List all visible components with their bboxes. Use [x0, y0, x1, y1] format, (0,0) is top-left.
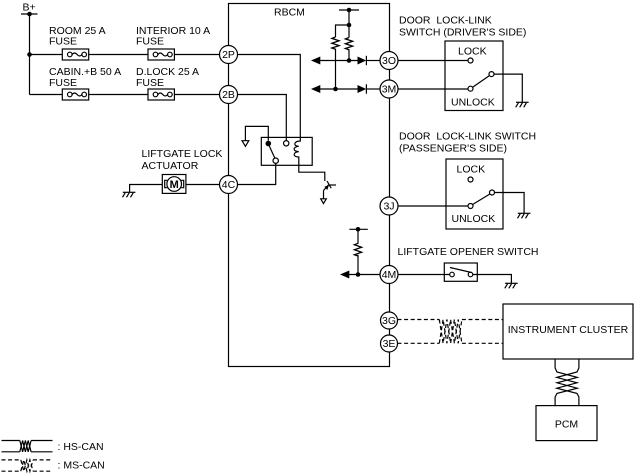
relay common contact — [266, 141, 272, 147]
wire 3M to driver unlock contact — [398, 88, 468, 90]
wire CABIN fuse to D.LOCK fuse — [89, 94, 148, 96]
svg-text:4M: 4M — [382, 269, 397, 281]
wire 3G dashed MS-CAN left — [398, 319, 440, 321]
contact opener left — [450, 272, 455, 277]
label D.LOCK 25 A FUSE — [136, 66, 199, 89]
power tick internal top — [339, 8, 359, 13]
resistor R-right — [345, 38, 352, 50]
label DOOR LOCK-LINK SWITCH (PASSENGER'S SIDE) — [399, 131, 536, 155]
svg-text:UNLOCK: UNLOCK — [451, 97, 495, 109]
pin 4C — [220, 176, 238, 194]
svg-text:LIFTGATE LOCK: LIFTGATE LOCK — [142, 148, 223, 160]
wire R-right to 3O line — [348, 49, 350, 60]
label ROOM 25 A FUSE — [49, 25, 106, 48]
contact driver lock — [468, 58, 473, 63]
relay NO contact — [273, 158, 278, 163]
svg-text:FUSE: FUSE — [136, 77, 164, 89]
legend MS-CAN symbol — [2, 460, 53, 471]
module INSTRUMENT CLUSTER box — [503, 304, 633, 359]
svg-text:2P: 2P — [222, 49, 235, 61]
contact driver common — [489, 72, 494, 77]
relay armature lever — [269, 146, 275, 158]
relay K1 box — [261, 137, 312, 165]
svg-text:4C: 4C — [222, 179, 236, 191]
svg-text:FUSE: FUSE — [49, 36, 77, 48]
wire INTERIOR fuse to pin 2P — [174, 54, 219, 56]
pin 3M — [380, 80, 398, 98]
wire diode to 3M — [366, 88, 380, 90]
svg-text:3J: 3J — [383, 201, 394, 213]
contact passenger common — [490, 190, 495, 195]
contact passenger lock (open) — [468, 177, 473, 182]
wire ROOM fuse to INTERIOR fuse — [89, 54, 148, 56]
wire motor to ground — [130, 185, 163, 193]
wire motor to pin 4C — [186, 184, 220, 186]
contact passenger unlock — [468, 204, 473, 209]
wire driver common to ground — [494, 74, 522, 102]
svg-text:PCM: PCM — [555, 419, 578, 431]
diode 3O line — [358, 56, 367, 65]
pin 3J — [380, 197, 398, 215]
lever passenger switch — [473, 194, 490, 205]
svg-text:3M: 3M — [382, 84, 397, 96]
junction row1 — [27, 52, 32, 57]
svg-text:ACTUATOR: ACTUATOR — [142, 160, 199, 172]
junction on 4M line — [356, 272, 361, 277]
arrow left 4M line — [340, 271, 349, 279]
switch box liftgate opener — [444, 263, 477, 281]
svg-text:LOCK: LOCK — [457, 164, 486, 176]
module PCM box — [536, 406, 597, 441]
svg-text:2B: 2B — [222, 89, 235, 101]
svg-text:M: M — [170, 179, 179, 191]
wire 4M to opener switch — [398, 274, 450, 276]
twisted pair MS-CAN to cluster — [439, 320, 462, 344]
svg-text:INSTRUMENT CLUSTER: INSTRUMENT CLUSTER — [508, 324, 629, 336]
fuse INTERIOR 10 A — [148, 49, 174, 60]
relay coil L1 — [294, 137, 300, 165]
arrow open down continuation left of relay — [242, 141, 249, 147]
svg-text:LOCK: LOCK — [458, 46, 487, 58]
switch box passenger — [446, 159, 503, 229]
wire 2B to relay contact — [238, 95, 286, 141]
wire 3G dashed MS-CAN right — [462, 319, 503, 321]
pin 2B — [220, 86, 238, 104]
wire 3E dashed MS-CAN right — [462, 342, 503, 344]
pin 2P — [220, 46, 238, 64]
svg-text:3E: 3E — [383, 338, 396, 350]
wire row2 corner to CABIN fuse — [30, 94, 63, 96]
wire 3E dashed MS-CAN left — [398, 342, 440, 344]
wire relay coil to transistor — [299, 165, 325, 181]
wire transistor emitter down — [323, 191, 325, 199]
fuse CABIN.+B 50 A — [62, 89, 88, 100]
svg-text:3O: 3O — [382, 55, 396, 67]
label CABIN.+B 50 A FUSE — [49, 66, 121, 89]
wire row1 to ROOM fuse — [30, 54, 63, 56]
arrow open down below transistor — [321, 199, 327, 204]
wire resistor to 4M line — [357, 255, 359, 275]
wire D.LOCK fuse to pin 2B — [174, 94, 219, 96]
arrow left 3M line — [311, 85, 320, 93]
wire power tick to resistor — [357, 229, 359, 243]
wire passenger common to ground — [495, 193, 525, 214]
svg-text:3G: 3G — [382, 315, 396, 327]
wire branch right — [348, 25, 350, 38]
wire 3M internal — [319, 88, 358, 90]
contact driver unlock — [468, 86, 473, 91]
wire R-left to 3M line — [335, 49, 337, 89]
svg-text:DOOR LOCK-LINK SWITCH: DOOR LOCK-LINK SWITCH — [399, 131, 536, 143]
wire B+ trunk — [29, 14, 31, 95]
fuse D.LOCK 25 A — [148, 89, 174, 100]
ground G-driver — [516, 102, 529, 107]
lever opener switch — [450, 268, 472, 273]
lever driver switch — [473, 76, 490, 88]
wire 2P to relay coil — [238, 55, 300, 138]
wire relay common up-left continuation — [245, 126, 268, 140]
svg-text:: HS-CAN: : HS-CAN — [58, 441, 104, 453]
twisted pair HS-CAN cluster to PCM wire B — [557, 359, 579, 406]
svg-text:B+: B+ — [23, 2, 36, 14]
legend HS-CAN symbol — [2, 441, 53, 452]
wire relay NO contact to 4C — [238, 163, 276, 184]
arrow left 3O line — [311, 57, 320, 65]
motor brush right — [181, 180, 184, 187]
transistor Q1 — [324, 181, 337, 191]
relay fixed contact from 2B — [284, 141, 289, 146]
label INTERIOR 10 A FUSE — [136, 25, 210, 48]
wire 3J to passenger unlock contact — [398, 205, 468, 207]
wire 3O to driver lock contact — [398, 60, 468, 62]
module RBCM box — [229, 4, 390, 367]
resistor R-left — [332, 37, 339, 49]
label DOOR LOCK-LINK SWITCH (DRIVER'S SIDE) — [399, 15, 526, 39]
ground G-motor — [123, 192, 136, 197]
power tick above 4M resistor — [349, 227, 367, 232]
ground G-passenger — [518, 213, 531, 218]
wire diode to 3O — [366, 60, 380, 62]
label LIFTGATE LOCK ACTUATOR — [142, 148, 223, 172]
pin 3O — [380, 52, 398, 70]
svg-text:SWITCH (DRIVER'S SIDE): SWITCH (DRIVER'S SIDE) — [399, 26, 526, 38]
contact opener right — [468, 272, 473, 277]
svg-text:DOOR LOCK-LINK: DOOR LOCK-LINK — [399, 15, 492, 27]
junction resistor branch — [347, 23, 352, 28]
wire 4M internal — [348, 274, 380, 276]
pin 4M — [380, 266, 398, 284]
diode 3M line — [358, 84, 367, 93]
twisted pair HS-CAN cluster to PCM wire A — [555, 359, 577, 406]
switch box driver — [445, 41, 503, 111]
junction R-right on 3O line — [347, 58, 352, 63]
svg-text:FUSE: FUSE — [136, 36, 164, 48]
pin 3E — [381, 335, 398, 352]
wire 3O internal — [319, 60, 358, 62]
wire opener to ground — [473, 275, 512, 284]
svg-text:(PASSENGER'S SIDE): (PASSENGER'S SIDE) — [399, 143, 507, 155]
svg-text:RBCM: RBCM — [274, 7, 305, 19]
node B+ terminal tick — [21, 12, 38, 17]
pin 3G — [381, 312, 398, 329]
ground G-opener — [505, 283, 518, 288]
svg-text:UNLOCK: UNLOCK — [452, 213, 496, 225]
wire power tick down — [348, 10, 350, 25]
svg-text:: MS-CAN: : MS-CAN — [58, 459, 105, 471]
junction R-left on 3M line — [333, 87, 338, 92]
svg-text:LIFTGATE OPENER SWITCH: LIFTGATE OPENER SWITCH — [398, 246, 539, 258]
motor M1 circle — [167, 177, 182, 192]
resistor R-4M — [354, 243, 361, 256]
motor brush left — [165, 180, 168, 187]
wire branch left — [336, 25, 350, 37]
fuse ROOM 25 A — [62, 49, 88, 60]
motor M1 actuator box — [162, 175, 186, 194]
svg-text:FUSE: FUSE — [49, 77, 77, 89]
